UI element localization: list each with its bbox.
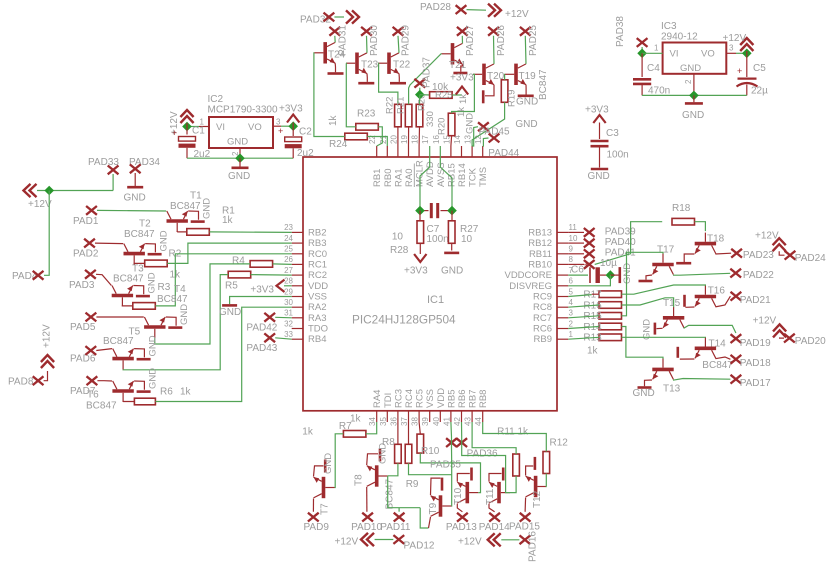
ground T8 bbox=[367, 454, 378, 465]
pad PAD13 bbox=[457, 513, 468, 522]
svg-text:330: 330 bbox=[425, 111, 436, 127]
svg-text:RB3: RB3 bbox=[308, 238, 326, 249]
wire R24 to pin21 bbox=[367, 137, 387, 147]
wire T4 base to R4 bbox=[155, 264, 250, 344]
svg-text:PAD22: PAD22 bbox=[743, 270, 774, 281]
svg-text:BC847: BC847 bbox=[702, 360, 733, 371]
svg-text:PAD24: PAD24 bbox=[795, 253, 826, 264]
IC1 pin 19 RA0 bbox=[408, 146, 410, 157]
svg-text:+12V: +12V bbox=[42, 324, 53, 348]
wire PAD45 to pin13 bbox=[472, 127, 478, 146]
svg-text:BC847: BC847 bbox=[170, 201, 201, 212]
svg-text:PAD33: PAD33 bbox=[88, 157, 119, 168]
svg-text:C6: C6 bbox=[571, 265, 584, 276]
ground T18 bbox=[684, 254, 694, 262]
svg-text:RB14: RB14 bbox=[457, 163, 468, 187]
wire T17 to PAD22 bbox=[673, 273, 730, 275]
IC1 pin 44 RB8 bbox=[482, 411, 484, 422]
svg-text:IC3: IC3 bbox=[661, 21, 677, 32]
transistor T8 BC847 bbox=[367, 465, 388, 486]
transistor T18 BC847 bbox=[695, 233, 716, 254]
pad PAD15 bbox=[520, 513, 531, 522]
wire pin42 to PAD36 to T11 base bbox=[462, 422, 511, 493]
svg-text:VDD: VDD bbox=[308, 281, 328, 292]
svg-text:T9: T9 bbox=[428, 502, 439, 514]
node IC2 gnd junction bbox=[235, 153, 245, 163]
node IC2 input junction bbox=[182, 122, 192, 132]
wire R3 to pin25 bbox=[155, 254, 291, 306]
svg-text:RC3: RC3 bbox=[393, 389, 404, 408]
supply +12V left rail arrow bbox=[24, 184, 37, 197]
pad PAD43 bbox=[264, 333, 275, 342]
IC1 pin 41 RB5 bbox=[450, 411, 452, 422]
svg-text:40: 40 bbox=[432, 417, 441, 426]
svg-text:RC6: RC6 bbox=[533, 324, 552, 335]
resistor R21 1k bbox=[405, 104, 412, 127]
pad PAD35 bbox=[446, 438, 457, 447]
svg-text:+3V3: +3V3 bbox=[450, 73, 474, 84]
svg-text:T18: T18 bbox=[707, 234, 725, 245]
resistor R25 10k bbox=[420, 94, 430, 96]
wire pin34 to R7 bbox=[366, 422, 377, 434]
resistor R16 1k bbox=[599, 302, 622, 309]
svg-text:PAD19: PAD19 bbox=[740, 338, 771, 349]
transistor T5 BC847 bbox=[112, 349, 133, 370]
svg-text:RB12: RB12 bbox=[528, 238, 552, 249]
pad PAD12 bbox=[393, 535, 404, 544]
resistor R24 1k bbox=[345, 133, 368, 140]
ground T22 bbox=[398, 74, 400, 82]
pad PAD24 bbox=[785, 251, 796, 260]
resistor R5 1k bbox=[228, 271, 251, 278]
pad PAD42 bbox=[264, 313, 275, 322]
svg-text:+3V3: +3V3 bbox=[250, 285, 274, 296]
transistor T23 BC847 bbox=[346, 53, 367, 74]
svg-text:R21: R21 bbox=[396, 97, 407, 114]
IC1 pin 4 RC8 bbox=[557, 306, 568, 308]
svg-text:+12V: +12V bbox=[755, 231, 779, 242]
svg-text:GND: GND bbox=[202, 198, 213, 219]
transistor T21 BC847 bbox=[442, 43, 463, 64]
IC2 pin2 lead bbox=[239, 148, 241, 158]
ground T17 bbox=[646, 275, 652, 280]
svg-text:RB11: RB11 bbox=[529, 249, 552, 260]
pad PAD41 bbox=[568, 253, 584, 255]
wire pin41 to PAD35 to T9 base bbox=[450, 422, 453, 506]
IC3 pin2 lead bbox=[693, 74, 695, 96]
svg-text:100n: 100n bbox=[427, 234, 449, 245]
pad PAD38 bbox=[637, 38, 648, 47]
svg-text:1k: 1k bbox=[180, 387, 192, 398]
svg-text:C4: C4 bbox=[647, 63, 660, 74]
svg-text:11: 11 bbox=[569, 223, 578, 232]
IC1 pin 31 RA3 bbox=[292, 317, 303, 319]
wire R6 to pin30 bbox=[155, 307, 291, 401]
wire AVSS to C7 bbox=[440, 157, 452, 211]
capacitor C4 470n bbox=[641, 53, 643, 77]
svg-text:T14: T14 bbox=[709, 339, 727, 350]
ground T16 bbox=[686, 306, 694, 309]
svg-text:R10: R10 bbox=[421, 446, 440, 457]
regulator IC2 MCP1790-3300 bbox=[209, 117, 273, 148]
svg-text:RC5: RC5 bbox=[415, 389, 426, 408]
svg-text:22µ: 22µ bbox=[751, 86, 768, 97]
supply +12V at PAD32 bbox=[334, 16, 344, 18]
wire +12V rail bbox=[37, 190, 113, 192]
svg-text:VSS: VSS bbox=[308, 292, 327, 303]
transistor T24 BC847 bbox=[314, 42, 335, 63]
transistor T11 BC847 bbox=[489, 482, 510, 503]
transistor T2 BC847 bbox=[124, 244, 145, 265]
wire R15 to T17 base bbox=[622, 252, 664, 315]
wire T18 to PAD23 bbox=[715, 252, 731, 255]
IC1 pin 15 RB15 bbox=[450, 146, 452, 157]
svg-text:41: 41 bbox=[442, 417, 451, 426]
svg-text:BC847: BC847 bbox=[157, 294, 188, 305]
svg-text:R4: R4 bbox=[232, 256, 245, 267]
wire T19 base to R19 bbox=[504, 74, 506, 79]
resistor R20 1k bbox=[448, 113, 455, 136]
svg-text:VSS: VSS bbox=[425, 389, 436, 408]
IC1 pin 25 RC0 bbox=[292, 253, 303, 255]
svg-text:R24: R24 bbox=[329, 139, 348, 150]
svg-text:PAD37: PAD37 bbox=[422, 57, 433, 88]
svg-text:PAD30: PAD30 bbox=[369, 25, 380, 56]
IC3 pin3 wire bbox=[726, 52, 736, 54]
IC1 pin 13 TCK bbox=[471, 146, 473, 157]
svg-text:RB0: RB0 bbox=[383, 169, 394, 187]
svg-text:GND: GND bbox=[633, 388, 655, 399]
ground T14 bbox=[680, 358, 695, 360]
supply +3V3 below R28 bbox=[414, 254, 426, 262]
svg-text:GND: GND bbox=[124, 193, 146, 204]
wire R21 to pin19 bbox=[408, 127, 410, 146]
svg-text:RB7: RB7 bbox=[468, 390, 479, 408]
svg-text:T12: T12 bbox=[532, 490, 543, 508]
IC1 pin 27 RC2 bbox=[292, 274, 303, 276]
svg-text:5: 5 bbox=[569, 287, 574, 296]
node AVDD junction bbox=[415, 206, 425, 216]
node IC3 output junction bbox=[742, 48, 752, 58]
svg-text:PAD27: PAD27 bbox=[465, 25, 476, 56]
svg-text:PAD42: PAD42 bbox=[246, 323, 277, 334]
svg-text:RC2: RC2 bbox=[308, 270, 327, 281]
svg-text:+3V3: +3V3 bbox=[279, 104, 303, 115]
wire IC2 ground rail bbox=[187, 157, 293, 159]
transistor T9 BC847 bbox=[431, 495, 452, 516]
svg-text:RB10: RB10 bbox=[528, 259, 552, 270]
transistor T16 BC847 bbox=[695, 286, 716, 307]
svg-text:42: 42 bbox=[453, 417, 462, 426]
svg-text:C3: C3 bbox=[606, 128, 619, 139]
wire PAD26 to T20 collector bbox=[493, 36, 496, 64]
svg-text:43: 43 bbox=[464, 417, 473, 426]
transistor T19 BC847 bbox=[505, 64, 526, 85]
svg-text:33: 33 bbox=[284, 330, 293, 339]
svg-text:PAD25: PAD25 bbox=[528, 25, 539, 56]
pad PAD10 bbox=[362, 513, 373, 522]
svg-text:GND: GND bbox=[147, 368, 158, 389]
ground IC3 bbox=[693, 95, 695, 102]
wire PAD7 to T6 bbox=[97, 380, 112, 382]
ground T15 bbox=[657, 327, 663, 329]
resistor R18 1k bbox=[672, 218, 695, 225]
pad PAD36 bbox=[456, 438, 467, 447]
svg-text:PAD11: PAD11 bbox=[380, 522, 411, 533]
IC1 pin 2 RC6 bbox=[557, 328, 568, 330]
svg-text:RC0: RC0 bbox=[308, 249, 327, 260]
wire R16 to T15 base bbox=[622, 298, 674, 307]
wire T11 to PAD14 bbox=[489, 504, 495, 512]
supply +3V3 at C2 bbox=[287, 115, 299, 123]
resistor R26 330 bbox=[416, 104, 423, 127]
svg-text:+12V: +12V bbox=[753, 316, 777, 327]
pad PAD20 bbox=[784, 334, 795, 343]
transistor T14 BC847 bbox=[695, 337, 716, 358]
ground T1 bbox=[188, 211, 198, 220]
svg-text:RB5: RB5 bbox=[446, 390, 457, 408]
pad PAD11 bbox=[394, 513, 405, 522]
svg-text:PAD36: PAD36 bbox=[467, 449, 498, 460]
resistor R2 1k bbox=[134, 263, 144, 264]
wire R12 to T12 base bbox=[545, 474, 547, 487]
svg-text:PAD3: PAD3 bbox=[69, 280, 95, 291]
svg-text:VI: VI bbox=[216, 122, 225, 133]
svg-text:PAD12: PAD12 bbox=[404, 541, 435, 552]
svg-text:T22: T22 bbox=[393, 60, 411, 71]
wire pin44 to R12 bbox=[483, 422, 547, 452]
svg-text:GND: GND bbox=[227, 137, 248, 148]
transistor T22 BC847 bbox=[378, 53, 399, 74]
wire R22 to pin20 bbox=[397, 127, 399, 146]
svg-text:1k: 1k bbox=[456, 107, 467, 117]
wire PAD33 down bbox=[112, 174, 114, 191]
ground T7 bbox=[314, 466, 324, 477]
node IC3 input junction bbox=[637, 48, 647, 58]
svg-text:PAD18: PAD18 bbox=[740, 358, 771, 369]
svg-text:R25: R25 bbox=[435, 90, 452, 101]
svg-text:RA1: RA1 bbox=[393, 169, 404, 187]
ground T23 bbox=[366, 74, 368, 82]
svg-text:RB8: RB8 bbox=[478, 390, 489, 408]
svg-text:+: + bbox=[737, 66, 742, 76]
svg-text:R28: R28 bbox=[390, 245, 409, 256]
transistor T4 BC847 bbox=[144, 317, 165, 338]
ground PAD34 bbox=[134, 173, 136, 186]
IC1 pin 16 AVSS bbox=[439, 146, 441, 157]
svg-text:GND: GND bbox=[147, 272, 158, 293]
svg-text:30: 30 bbox=[284, 298, 293, 307]
svg-text:PAD17: PAD17 bbox=[740, 378, 771, 389]
wire PAD2 to T2 bbox=[95, 242, 123, 245]
IC1 pin 18 MCLR bbox=[418, 146, 420, 157]
ground C3 bbox=[591, 168, 608, 171]
wire PAD30 to T23 collector bbox=[366, 36, 369, 53]
wire R7 to T7 base bbox=[335, 434, 344, 488]
wire R14 to T13 base bbox=[622, 327, 664, 359]
node AVSS junction bbox=[447, 206, 457, 216]
svg-text:AVSS: AVSS bbox=[436, 162, 447, 187]
resistor R4 1k bbox=[250, 261, 273, 268]
svg-text:26: 26 bbox=[284, 255, 293, 264]
svg-text:PAD44: PAD44 bbox=[488, 148, 519, 159]
wire T23 base to R23 bbox=[346, 63, 356, 127]
wire R13 to T14 base bbox=[622, 336, 706, 338]
svg-text:+12V: +12V bbox=[335, 537, 359, 548]
resistor R14 1k bbox=[599, 323, 622, 330]
capacitor C6 10u bbox=[568, 274, 588, 276]
wire PAD27 to T21 collector bbox=[461, 36, 463, 44]
svg-text:1k: 1k bbox=[302, 427, 314, 438]
svg-text:6: 6 bbox=[569, 277, 574, 286]
pad PAD27 bbox=[457, 27, 468, 36]
ground T10 bbox=[457, 474, 470, 482]
IC1 pin 14 RB14 bbox=[461, 146, 463, 157]
svg-text:+12V: +12V bbox=[28, 199, 52, 210]
svg-text:IC2: IC2 bbox=[208, 94, 224, 105]
svg-text:PAD35: PAD35 bbox=[430, 460, 461, 471]
pad PAD37 bbox=[414, 79, 425, 88]
svg-text:PAD45: PAD45 bbox=[479, 127, 510, 138]
pad PAD39 bbox=[568, 231, 584, 233]
svg-text:37: 37 bbox=[400, 417, 409, 426]
wire R11 to T11 base bbox=[510, 476, 516, 493]
svg-text:28: 28 bbox=[284, 277, 293, 286]
svg-text:DISVREG: DISVREG bbox=[509, 281, 552, 292]
svg-text:10: 10 bbox=[392, 232, 404, 243]
resistor R7 1k bbox=[343, 431, 366, 438]
svg-text:C1: C1 bbox=[192, 126, 205, 137]
IC1 pin 30 RA2 bbox=[292, 306, 303, 308]
wire T13 to PAD17 bbox=[673, 379, 730, 381]
svg-text:RC8: RC8 bbox=[533, 302, 552, 313]
wire R5 to pin27 bbox=[251, 274, 292, 277]
svg-text:RB13: RB13 bbox=[528, 227, 552, 238]
ground at pin29 bbox=[230, 297, 292, 305]
svg-text:R23: R23 bbox=[357, 109, 376, 120]
IC1 pin 17 AVDD bbox=[429, 146, 431, 157]
svg-text:TDI: TDI bbox=[383, 393, 394, 408]
svg-text:GND: GND bbox=[219, 307, 241, 318]
pad PAD17 bbox=[731, 375, 742, 384]
ground T24 bbox=[334, 63, 336, 72]
regulator IC3 2940-12 bbox=[663, 43, 727, 74]
wire PAD1 to T1 bbox=[97, 209, 166, 212]
transistor T15 BC847 bbox=[663, 307, 684, 328]
svg-text:PAD29: PAD29 bbox=[401, 25, 412, 56]
wire T20 base to R20 bbox=[452, 74, 475, 113]
IC1 pin 34 RA4 bbox=[376, 411, 378, 422]
supply +3V3 at R25 bbox=[452, 94, 462, 96]
svg-text:PAD20: PAD20 bbox=[795, 336, 826, 347]
wire R4 to pin26 bbox=[273, 263, 292, 266]
IC1 pin 5 RC9 bbox=[557, 296, 568, 298]
wire R26 to pin18 bbox=[418, 127, 420, 146]
pad PAD40 bbox=[568, 242, 584, 244]
IC1 pin 33 RB4 bbox=[292, 338, 303, 340]
svg-text:T11: T11 bbox=[485, 488, 496, 505]
svg-text:PAD26: PAD26 bbox=[496, 25, 507, 56]
svg-text:GND: GND bbox=[228, 171, 250, 182]
IC2 pin3 wire bbox=[273, 125, 281, 127]
wire T5 base to R5 bbox=[123, 275, 228, 370]
svg-text:2: 2 bbox=[569, 319, 574, 328]
svg-text:20: 20 bbox=[389, 135, 398, 144]
pad PAD26 bbox=[488, 27, 499, 36]
IC1 pin 23 RB2 bbox=[292, 231, 303, 233]
ground T6 bbox=[134, 381, 144, 390]
svg-text:44: 44 bbox=[474, 417, 483, 426]
IC1 pin 35 TDI bbox=[386, 411, 388, 422]
IC1 pin 12 TMS bbox=[482, 146, 484, 157]
svg-text:RB4: RB4 bbox=[308, 334, 326, 345]
svg-text:PAD13: PAD13 bbox=[446, 522, 477, 533]
wire T24 base to R24 bbox=[314, 53, 345, 137]
ground T13 bbox=[645, 380, 653, 386]
supply +12V at PAD28 bbox=[467, 9, 487, 12]
svg-text:TMS: TMS bbox=[478, 167, 489, 187]
pad PAD22 bbox=[730, 269, 741, 278]
IC1 pin 7 VDDCORE bbox=[557, 274, 568, 276]
svg-text:R11 1k: R11 1k bbox=[497, 427, 529, 438]
svg-text:RC4: RC4 bbox=[404, 389, 415, 408]
ground C6 bbox=[610, 274, 618, 276]
wire T15 to PAD19 bbox=[684, 325, 736, 333]
IC1 pin 1 RB9 bbox=[557, 338, 568, 340]
svg-text:C5: C5 bbox=[753, 63, 766, 74]
resistor R3 1k bbox=[122, 305, 132, 308]
pad on pin8 bbox=[568, 263, 584, 265]
IC U1 IC1 PIC24HJ128GP504 body bbox=[303, 157, 557, 411]
svg-text:10µ: 10µ bbox=[600, 258, 617, 269]
svg-text:PAD6: PAD6 bbox=[70, 354, 96, 365]
IC1 pin 40 VDD bbox=[439, 411, 441, 422]
node +12V rail junction bbox=[44, 186, 54, 196]
svg-text:TDO: TDO bbox=[308, 324, 328, 335]
wire R18 to T18 base bbox=[695, 222, 706, 231]
IC1 pin 22 RB1 bbox=[376, 146, 378, 157]
svg-text:17: 17 bbox=[421, 135, 430, 144]
svg-text:RC1: RC1 bbox=[308, 259, 327, 270]
svg-text:2u2: 2u2 bbox=[297, 148, 314, 159]
svg-text:35: 35 bbox=[379, 417, 388, 426]
wire +12V rail down to PAD4 bbox=[44, 191, 49, 276]
capacitor C2 2u2 bbox=[292, 126, 294, 136]
svg-text:T24: T24 bbox=[328, 50, 346, 61]
wire PAD25 to T19 collector bbox=[524, 36, 527, 64]
wire R10 to T10 base bbox=[420, 453, 480, 493]
wire PAD37 to node bbox=[419, 88, 421, 95]
svg-text:25: 25 bbox=[284, 245, 293, 254]
IC1 pin 9 RB11 bbox=[557, 253, 568, 255]
wire pin7 node to pin6 bbox=[568, 275, 610, 286]
svg-text:PAD1: PAD1 bbox=[73, 216, 99, 227]
IC1 pin 39 VSS bbox=[429, 411, 431, 422]
pad PAD29 bbox=[393, 27, 404, 36]
svg-text:PAD7: PAD7 bbox=[70, 386, 96, 397]
resistor R28 10 bbox=[419, 211, 421, 221]
resistor R13 1k bbox=[599, 334, 622, 341]
svg-text:36: 36 bbox=[389, 417, 398, 426]
wire R9 to T9 net bbox=[409, 463, 452, 474]
transistor T3 BC847 bbox=[112, 286, 133, 307]
svg-text:RC9: RC9 bbox=[533, 292, 552, 303]
wire PAD5 to T4 bbox=[96, 316, 143, 318]
wire R17 to T16 base bbox=[622, 285, 706, 294]
wire PAD44 to pin12 bbox=[483, 138, 489, 146]
ground T19 bbox=[525, 85, 527, 95]
transistor T20 BC847 bbox=[473, 64, 494, 85]
